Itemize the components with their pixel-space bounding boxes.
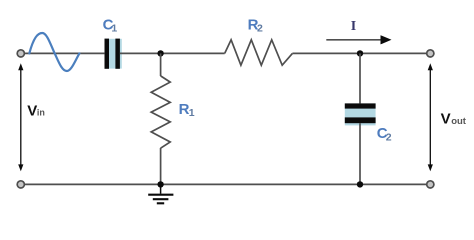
node C junction (R1 bottom / ground) — [157, 181, 163, 187]
label Vout — [441, 110, 467, 127]
label C1 — [103, 17, 118, 35]
label I — [351, 19, 356, 34]
wire C2 bottom lead — [359, 123, 361, 184]
node D junction (C2 bottom) — [357, 181, 363, 187]
svg-text:in: in — [37, 107, 45, 117]
svg-text:1: 1 — [189, 107, 195, 119]
Vin arrow — [18, 63, 23, 171]
label R2 — [248, 16, 263, 34]
svg-text:V: V — [441, 110, 451, 127]
wire C2 top lead — [359, 53, 361, 103]
wire bottom rail — [25, 183, 427, 185]
svg-text:I: I — [351, 19, 356, 34]
resistor R2 — [225, 40, 293, 65]
node A junction (C1/R1/R2) — [157, 50, 163, 56]
label Vin — [27, 102, 45, 119]
capacitor C2 bottom plate — [345, 117, 376, 123]
terminal input top — [17, 50, 24, 57]
sine wave source symbol — [29, 33, 79, 71]
ground — [148, 184, 173, 203]
wire R1 bottom lead — [160, 148, 162, 184]
capacitor C2 body fill — [345, 103, 376, 125]
capacitor C1 right plate — [115, 39, 120, 69]
wire R1 top lead — [160, 53, 162, 76]
current arrow I line — [326, 35, 391, 44]
svg-text:2: 2 — [257, 23, 263, 35]
svg-text:1: 1 — [111, 23, 117, 35]
Vout arrow — [428, 63, 433, 171]
svg-text:V: V — [27, 102, 37, 119]
svg-text:out: out — [451, 116, 467, 127]
label R1 — [179, 101, 195, 119]
capacitor C1 body fill — [105, 39, 122, 69]
resistor R1 — [151, 76, 170, 148]
svg-text:2: 2 — [386, 131, 392, 143]
terminal input bottom — [17, 181, 24, 188]
wire top rail middle segment — [120, 52, 225, 54]
capacitor C2 top plate — [345, 103, 376, 108]
terminal output top — [427, 50, 434, 57]
terminal output bottom — [427, 181, 434, 188]
capacitor C1 left plate — [105, 39, 110, 69]
wire top rail right segment — [292, 52, 426, 54]
label C2 — [377, 125, 392, 144]
node B junction (C2 top) — [357, 50, 363, 56]
wire top rail left segment — [25, 52, 105, 54]
